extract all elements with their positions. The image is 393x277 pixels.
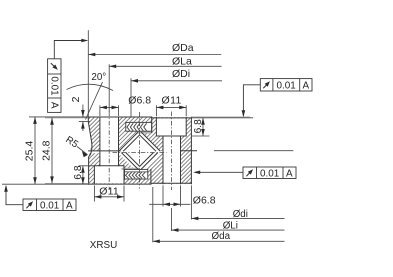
parting slit left ring lines <box>89 150 121 152</box>
roller diamond (clipped at bottom seal groove) <box>124 135 156 167</box>
ODa arrow <box>88 53 95 57</box>
dim 2 arrows (outside) <box>81 110 85 117</box>
svg-text:0.01: 0.01 <box>40 200 60 211</box>
top O11 arrows <box>156 106 163 110</box>
OLi <box>171 208 173 231</box>
parting line right ring <box>181 150 197 152</box>
right 6.8 arrows <box>201 118 205 125</box>
20 deg slant line <box>86 82 103 120</box>
parting slit left ring <box>89 151 122 153</box>
bolt hole right Ø6.8 <box>163 136 181 183</box>
outer ring body (left) + inner ring body (right): hatched background <box>88 117 191 184</box>
svg-text:Ødi: Ødi <box>233 209 248 220</box>
Odi <box>190 185 192 219</box>
OLi arrow <box>172 228 179 232</box>
svg-text:24.8: 24.8 <box>41 140 53 161</box>
Odi arrow <box>191 217 198 221</box>
centerlines dash-dot <box>109 112 171 191</box>
bottom O11 arrows <box>94 195 101 199</box>
Oda arrow <box>153 240 160 244</box>
bottom face <box>89 183 151 185</box>
svg-text:ØLa: ØLa <box>172 55 192 67</box>
R5 leader arrow <box>82 151 88 157</box>
roller cavity diamond (outer raceway) <box>118 131 162 175</box>
svg-text:2: 2 <box>70 96 82 102</box>
svg-text:A: A <box>48 102 59 109</box>
seal retainer lip verticals <box>151 117 153 132</box>
top O11 ext lines <box>155 105 157 116</box>
svg-text:0.01: 0.01 <box>48 76 59 96</box>
mid-right FCF <box>195 167 296 179</box>
gray auxiliary thick lines <box>122 133 151 169</box>
bottom O6.8 arrows <box>163 203 170 207</box>
top-right FCF <box>243 79 312 116</box>
ext line ODi <box>130 78 132 117</box>
hole centerline right <box>171 112 173 191</box>
24.8 arrows <box>50 118 54 125</box>
seal zigzags top <box>126 123 147 178</box>
relief right of cavity <box>156 151 165 153</box>
main outlines <box>88 117 196 184</box>
right bolt hole walls <box>162 136 164 184</box>
seal box top <box>126 122 152 131</box>
svg-text:Øda: Øda <box>212 231 231 242</box>
right 6.8: ext <box>191 117 253 119</box>
Oda <box>152 187 154 242</box>
svg-text:0.01: 0.01 <box>277 81 297 92</box>
white cutouts <box>89 118 187 184</box>
top face <box>88 116 151 118</box>
left vertical FCF <box>48 41 82 113</box>
top face ext left (two ring heights) <box>29 116 88 118</box>
svg-text:ØLi: ØLi <box>223 220 238 231</box>
svg-text:Ø11: Ø11 <box>162 94 182 106</box>
ext line ODa <box>87 30 89 117</box>
svg-text:Ø6.8: Ø6.8 <box>193 195 216 207</box>
bolt hole left Ø6.8 <box>100 118 119 166</box>
right ring bore edge <box>190 117 192 184</box>
left ring outer profile <box>88 117 92 143</box>
left bolt hole walls <box>99 117 101 166</box>
svg-text:A: A <box>303 81 310 92</box>
svg-text:XRSU: XRSU <box>90 240 117 251</box>
svg-text:A: A <box>286 168 293 179</box>
bottom O11 ext <box>93 185 95 201</box>
roller horizontal centerline <box>113 151 167 153</box>
counterbore left Ø11 <box>94 166 124 184</box>
raceway outer diamond (clipped at seal grooves) <box>119 133 160 170</box>
top O6.8 dim line <box>100 106 119 108</box>
svg-text:A: A <box>66 200 73 211</box>
top O6.8 ext lines <box>99 105 101 116</box>
left 6.8 arrows <box>81 166 85 173</box>
left 6.8: ext <box>79 165 95 167</box>
OLa arrow <box>109 65 116 69</box>
seal box bottom <box>125 169 148 179</box>
dim 24.8 <box>51 118 53 184</box>
svg-text:ØDa: ØDa <box>172 42 194 54</box>
svg-text:Ø6.8: Ø6.8 <box>128 94 151 106</box>
dim 25.4 <box>34 117 36 184</box>
svg-text:6.8: 6.8 <box>73 165 84 179</box>
svg-text:20°: 20° <box>91 72 106 83</box>
svg-text:0.01: 0.01 <box>260 168 280 179</box>
25.4 arrows <box>33 117 37 124</box>
bottom O6.8 ext <box>162 185 164 206</box>
dim line ODa <box>88 54 221 56</box>
bottom-left FCF <box>6 186 76 210</box>
ODi arrow <box>131 79 138 83</box>
svg-text:Ø11: Ø11 <box>99 185 119 197</box>
right counterbore <box>156 117 186 136</box>
ext line OLa <box>108 64 110 112</box>
20 deg arc <box>67 84 114 90</box>
seal groove top <box>126 122 152 131</box>
svg-text:25.4: 25.4 <box>24 141 36 162</box>
svg-text:6.8: 6.8 <box>193 119 204 133</box>
bottom face ext left (two ring heights) <box>2 183 89 185</box>
left counterbore <box>94 166 124 184</box>
dim line ODi <box>131 80 222 82</box>
dim line OLa <box>109 65 221 67</box>
R5 leader line <box>77 147 87 155</box>
mid parting ext right <box>214 150 293 152</box>
counterbore right Ø11 <box>156 118 186 136</box>
top O11 dim line <box>156 106 186 108</box>
seal groove bottom <box>125 169 148 179</box>
svg-text:ØDi: ØDi <box>172 68 190 80</box>
hatch fill: left ring <box>88 117 191 184</box>
roller vertical centerline <box>139 112 141 189</box>
dim 2: ext <box>79 121 90 123</box>
top O6.8 arrows <box>100 106 107 110</box>
arrowheads <box>33 53 205 243</box>
hole centerline left <box>108 112 110 191</box>
